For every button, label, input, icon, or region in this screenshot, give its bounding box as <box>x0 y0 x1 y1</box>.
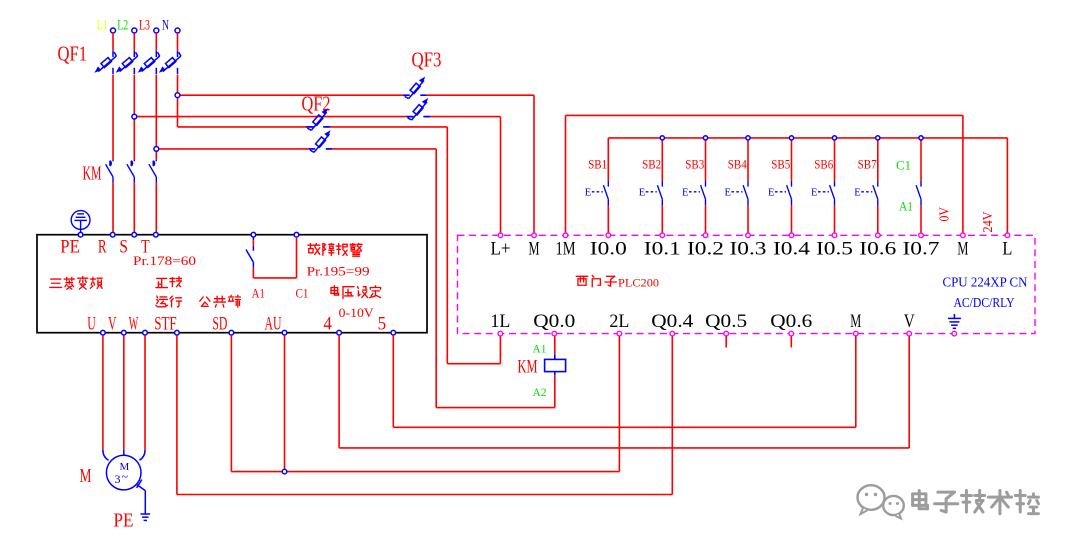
contactor KM main contact pole 2 <box>127 160 134 182</box>
breaker QF2 pole 2 <box>309 130 332 152</box>
svg-text:L3: L3 <box>139 17 150 33</box>
contact fault relay A1-C1 inside inverter <box>246 237 297 278</box>
label C1 <box>296 287 309 301</box>
breaker QF1 pole 2 <box>116 51 138 74</box>
svg-text:Pr.178=60: Pr.178=60 <box>133 253 196 268</box>
terminal PLC L+ (top) <box>491 233 511 259</box>
label Pr.195=99 <box>307 263 370 278</box>
terminal PLC Q0.6 (bottom) <box>770 312 812 336</box>
terminal PLC I0.4 (top) <box>773 233 810 259</box>
svg-text:QF1: QF1 <box>58 42 88 66</box>
wire V to motor <box>123 335 125 450</box>
label PE motor <box>114 510 134 532</box>
wire pushbutton bus to PLC L <box>608 138 1007 233</box>
label M motor <box>80 465 92 487</box>
svg-text:1L: 1L <box>490 312 510 332</box>
terminal PLC I0.7 (top) <box>903 233 940 259</box>
svg-text:I0.1: I0.1 <box>644 239 681 259</box>
terminal inverter 4 <box>323 314 341 335</box>
node L2 <box>117 17 137 33</box>
svg-text:Pr.195=99: Pr.195=99 <box>307 263 370 278</box>
terminal inverter S <box>119 232 136 257</box>
terminal inverter U <box>87 314 105 335</box>
wire KM pole 1 to inverter <box>112 182 114 232</box>
svg-text:I0.2: I0.2 <box>687 239 724 259</box>
terminal inverter STF <box>154 314 179 335</box>
terminal PLC M (bottom) <box>850 312 861 336</box>
wire L4 drop to QF1 <box>177 33 179 51</box>
svg-text:M: M <box>529 239 540 259</box>
pushbutton SB1 <box>585 138 609 233</box>
terminal inverter PE <box>60 232 83 257</box>
terminal PLC I0.3 (top) <box>730 233 767 259</box>
svg-text:E: E <box>811 187 817 198</box>
svg-text:M: M <box>80 465 92 487</box>
breaker QF1 pole 3 <box>138 51 160 74</box>
svg-text:E: E <box>768 187 774 198</box>
node junction AU tap <box>282 469 287 474</box>
motor M 3~ <box>103 450 145 490</box>
label A1 <box>252 287 265 301</box>
svg-text:E: E <box>682 187 688 198</box>
terminal PLC I0.1 (top) <box>644 233 681 259</box>
wire PLC M to inverter 5 <box>393 335 856 427</box>
pushbutton SB6 <box>811 136 837 233</box>
svg-text:4: 4 <box>323 314 332 334</box>
terminal PLC M (top) <box>957 233 968 259</box>
svg-text:L2: L2 <box>117 17 128 33</box>
svg-text:E: E <box>585 187 591 198</box>
svg-text:3: 3 <box>115 472 121 486</box>
svg-text:Q0.4: Q0.4 <box>651 312 693 332</box>
svg-text:Q0.5: Q0.5 <box>705 312 747 332</box>
breaker QF1 pole 4 <box>159 51 181 74</box>
svg-text:V: V <box>904 312 916 332</box>
svg-text:I0.3: I0.3 <box>730 239 767 259</box>
svg-text:KM: KM <box>518 357 538 378</box>
svg-text:A2: A2 <box>533 385 547 399</box>
wire W to motor <box>144 335 146 450</box>
node junction L2 branch <box>132 114 137 119</box>
wire AU drop <box>284 335 286 471</box>
svg-text:I0.4: I0.4 <box>773 239 810 259</box>
terminal inverter R <box>98 232 115 257</box>
label KM coil <box>518 357 538 378</box>
terminal inverter V <box>108 314 126 335</box>
svg-text:0V: 0V <box>937 207 952 222</box>
breaker QF3 pole 1 <box>403 77 426 99</box>
svg-text:PLC200: PLC200 <box>618 276 659 290</box>
node L1 <box>97 17 116 33</box>
label A2 coil <box>533 385 547 399</box>
svg-text:A1: A1 <box>533 342 547 356</box>
ground motor PE <box>141 510 151 521</box>
node L3 <box>139 17 159 33</box>
svg-text:SB3: SB3 <box>685 156 704 171</box>
svg-text:R: R <box>98 237 107 257</box>
svg-text:SB7: SB7 <box>858 156 877 171</box>
wire U to motor <box>102 335 104 450</box>
wire L2 drop to QF1 <box>133 33 135 51</box>
label forward run <box>156 277 182 307</box>
svg-text:SD: SD <box>212 314 227 334</box>
watermark text dianzijishukong <box>913 491 1039 514</box>
label 0V <box>937 207 952 222</box>
label common terminal <box>200 295 241 307</box>
label 0-10V <box>339 305 375 320</box>
wire L1 drop to QF1 <box>112 33 114 51</box>
terminal inverter 5 <box>378 314 396 335</box>
svg-text:I0.7: I0.7 <box>903 239 940 259</box>
svg-text:N: N <box>162 17 169 33</box>
wire 0V rail 1M to PLC M <box>566 115 963 232</box>
ground PLC chassis earth <box>948 314 961 328</box>
wire L3 to QF2 pole2 (to KM coil A2) <box>156 149 555 408</box>
wire N to QF3 pole1 (to PLC M) <box>178 95 535 233</box>
breaker QF1 pole 1 <box>94 51 116 74</box>
svg-text:E: E <box>725 187 731 198</box>
svg-text:L1: L1 <box>97 17 108 33</box>
breaker QF1 label <box>58 42 88 66</box>
svg-text:M: M <box>957 239 968 259</box>
breaker QF3 label <box>412 48 442 72</box>
svg-text:S: S <box>119 237 128 257</box>
terminal PLC 1M (top) <box>556 233 576 259</box>
label CPU 224XP CN <box>943 275 1028 290</box>
pushbutton SB7 <box>854 136 880 233</box>
svg-text:SB2: SB2 <box>642 156 661 171</box>
relay coil KM (A1/A2) <box>545 336 566 375</box>
contactor KM main contact pole 3 <box>149 160 156 182</box>
label mitsubishi inverter <box>50 277 102 290</box>
svg-text:PE: PE <box>114 510 134 532</box>
pushbutton SB2 <box>639 136 665 233</box>
label AC/DC/RLY <box>954 295 1015 310</box>
terminal inverter W <box>129 314 148 335</box>
svg-text:SB4: SB4 <box>728 156 747 171</box>
breaker QF3 pole 2 <box>406 98 429 120</box>
breaker QF2 pole 1 <box>306 108 329 130</box>
svg-text:SB6: SB6 <box>814 156 833 171</box>
pushbutton SB5 <box>768 136 794 233</box>
terminal PLC L (top) <box>1002 233 1012 259</box>
svg-text:A1: A1 <box>252 287 265 301</box>
terminal PLC I0.5 (top) <box>816 233 853 259</box>
svg-text:STF: STF <box>154 314 177 334</box>
svg-text:L: L <box>1002 239 1012 259</box>
svg-text:QF3: QF3 <box>412 48 442 72</box>
wire KM pole 2 to inverter <box>133 182 135 232</box>
svg-text:KM: KM <box>83 163 102 185</box>
wire KM pole 3 to inverter <box>155 182 157 232</box>
terminal PLC V (bottom) <box>904 312 916 336</box>
wire L2 phase QF1 to KM <box>133 75 135 160</box>
svg-text:SB5: SB5 <box>771 156 790 171</box>
svg-text:2L: 2L <box>609 312 629 332</box>
node junction L3 branch <box>154 147 159 152</box>
svg-text:24V: 24V <box>980 211 995 232</box>
svg-text:PE: PE <box>60 237 80 257</box>
node N <box>162 17 180 33</box>
wire L1 phase QF1 to KM <box>112 75 114 160</box>
svg-text:1M: 1M <box>556 239 576 259</box>
terminal PLC 1L (bottom) <box>490 312 510 336</box>
svg-text:C1: C1 <box>296 287 309 301</box>
svg-text:I0.5: I0.5 <box>816 239 853 259</box>
svg-text:W: W <box>129 314 139 334</box>
svg-text:5: 5 <box>378 314 387 334</box>
wire Q0.6 stub <box>790 336 792 347</box>
terminal inverter AU <box>265 314 287 335</box>
svg-text:Q0.0: Q0.0 <box>533 312 575 332</box>
terminal PLC I0.0 (top) <box>590 233 627 259</box>
terminal PLC 2L (bottom) <box>609 312 629 336</box>
contactor KM label <box>83 163 102 185</box>
label 24V <box>980 211 995 232</box>
svg-text:L+: L+ <box>491 239 511 259</box>
terminal PLC M (top) <box>529 233 540 259</box>
ground earth-in-circle at inverter PE <box>71 211 90 233</box>
node junction N branch <box>175 93 180 98</box>
svg-text:Q0.6: Q0.6 <box>770 312 812 332</box>
label Pr.178=60 <box>133 253 196 268</box>
wire 2L to SD/AU <box>231 335 619 471</box>
svg-text:~: ~ <box>122 470 129 484</box>
wire motor PE lead <box>137 480 146 510</box>
wire N to QF2 pole1 (to PLC 1L) <box>178 127 501 364</box>
wire Q0.4 to STF <box>177 335 672 494</box>
terminal inverter A1 (fault relay) <box>251 232 256 237</box>
watermark wechat logo <box>858 485 904 518</box>
svg-text:0-10V: 0-10V <box>339 305 375 320</box>
svg-text:SB1: SB1 <box>588 156 607 171</box>
wire Q0.5 stub <box>725 336 727 347</box>
inverter (Mitsubishi VFD) box <box>37 235 427 333</box>
svg-text:I0.0: I0.0 <box>590 239 627 259</box>
svg-text:AU: AU <box>265 314 282 334</box>
svg-text:U: U <box>87 314 96 334</box>
svg-text:E: E <box>854 187 860 198</box>
terminal PLC I0.2 (top) <box>687 233 724 259</box>
terminal inverter C1 (fault relay) <box>294 232 299 237</box>
svg-text:AC/DC/RLY: AC/DC/RLY <box>954 295 1015 310</box>
label fault alarm <box>308 244 362 257</box>
wire L3 phase QF1 to KM <box>155 75 157 160</box>
svg-text:C1: C1 <box>896 159 911 173</box>
svg-text:CPU 224XP CN: CPU 224XP CN <box>943 275 1028 290</box>
label voltage setting <box>331 286 381 299</box>
svg-text:E: E <box>639 187 645 198</box>
terminal PLC Q0.0 (bottom) <box>533 312 575 336</box>
terminal PLC earth (bottom) <box>952 331 957 336</box>
svg-text:V: V <box>108 314 117 334</box>
contact KA fault (C1/A1) to I0.7 <box>896 136 923 233</box>
pushbutton SB3 <box>682 136 708 233</box>
svg-text:M: M <box>850 312 861 332</box>
wire N QF1 down to corner <box>177 75 179 127</box>
terminal PLC I0.6 (top) <box>859 233 896 259</box>
terminal inverter SD <box>212 314 233 335</box>
terminal PLC Q0.5 (bottom) <box>705 312 747 336</box>
label A1 coil <box>533 342 547 356</box>
PLC (Siemens S7-200) dashed box <box>458 235 1036 333</box>
svg-text:I0.6: I0.6 <box>859 239 896 259</box>
svg-text:A1: A1 <box>899 200 913 214</box>
terminal PLC Q0.4 (bottom) <box>651 312 693 336</box>
contactor KM main contact pole 1 <box>106 160 113 182</box>
pushbutton SB4 <box>725 136 751 233</box>
breaker QF2 label <box>302 92 331 116</box>
wire PLC V to inverter 4 <box>339 335 909 448</box>
wire L3 drop to QF1 <box>155 33 157 51</box>
label siemens PLC200 <box>576 276 659 290</box>
wire L2 to QF3 pole2 (to PLC L+) <box>134 117 500 233</box>
terminal inverter T <box>141 232 158 257</box>
